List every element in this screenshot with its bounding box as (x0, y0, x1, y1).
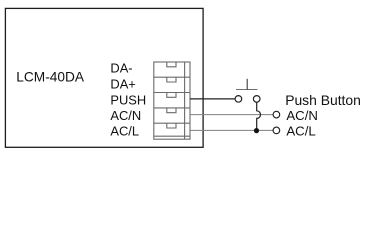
svg-text:LCM-40DA: LCM-40DA (16, 69, 85, 84)
LED driver box U1 (LCM-40DA) (5, 8, 203, 147)
terminal block TB1 body (154, 62, 190, 139)
wire AC/L pin to AC/L terminal (190, 129, 274, 131)
push button S1 (235, 96, 260, 103)
svg-text:DA-: DA- (110, 61, 132, 76)
wire push button to AC/L junction (hops over AC/N) (257, 102, 261, 130)
terminal block screw slots (167, 62, 176, 128)
push button actuator (236, 79, 258, 90)
svg-text:Push Button: Push Button (285, 92, 361, 108)
svg-text:PUSH: PUSH (110, 92, 146, 107)
svg-text:DA+: DA+ (110, 76, 135, 91)
wire AC/N pin to AC/N terminal (190, 114, 274, 116)
junction dot on AC/L (254, 128, 259, 133)
terminal circle AC/N (273, 111, 280, 118)
svg-text:AC/N: AC/N (110, 108, 141, 123)
svg-text:AC/N: AC/N (286, 108, 318, 123)
svg-text:AC/L: AC/L (286, 124, 315, 139)
wire PUSH pin to push button (190, 98, 235, 100)
terminal block cell separators (154, 77, 190, 136)
terminal circle AC/L (273, 127, 280, 134)
svg-text:AC/L: AC/L (110, 124, 139, 139)
